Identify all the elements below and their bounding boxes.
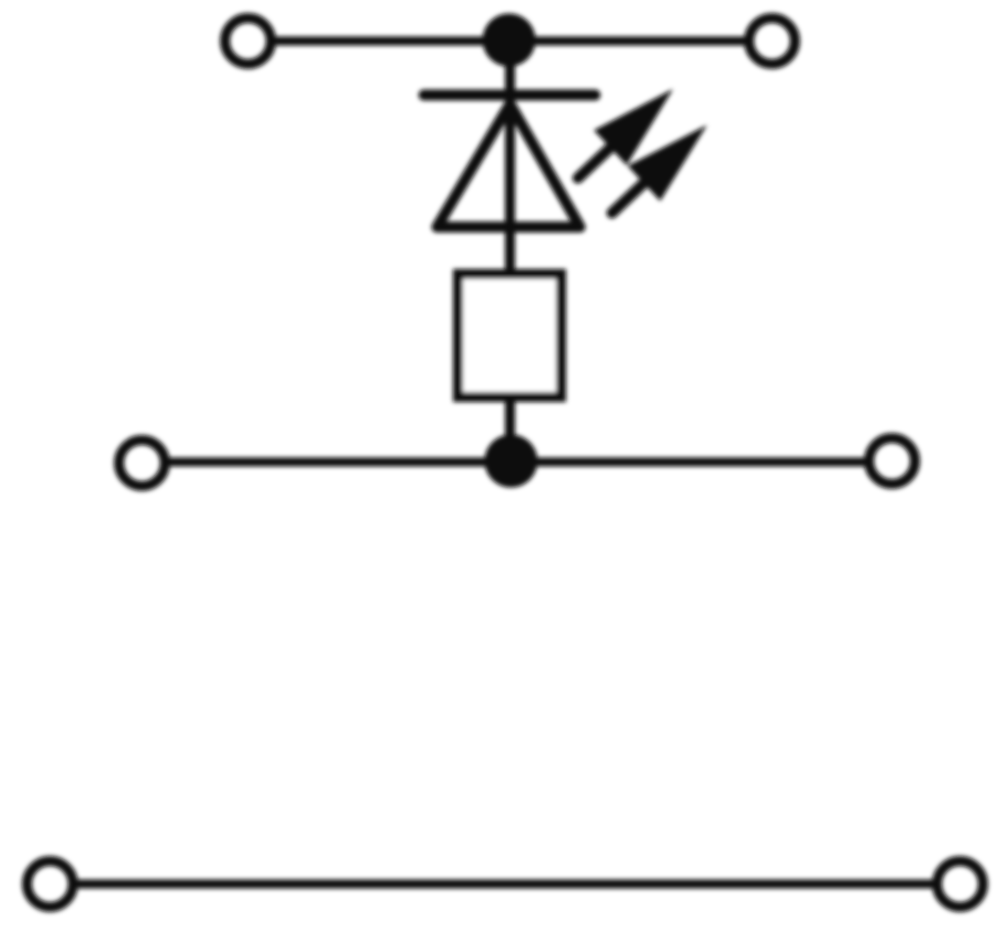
terminal bottom-left bbox=[27, 861, 73, 907]
wire top rail bbox=[276, 37, 744, 46]
wire bottom rail bbox=[76, 880, 934, 889]
resistor R1 body bbox=[458, 274, 561, 397]
terminal top-left bbox=[225, 18, 271, 64]
LED D1 triangle bbox=[437, 104, 580, 227]
terminal bottom-right bbox=[937, 861, 983, 907]
LED D1 cathode bar bbox=[424, 90, 595, 101]
LED D1 light arrow 1 bbox=[578, 89, 673, 178]
terminal middle-left bbox=[119, 440, 165, 486]
LED D1 light arrow 2 bbox=[612, 125, 707, 213]
terminal top-right bbox=[749, 18, 795, 64]
node junction top bbox=[483, 14, 536, 67]
wire vertical from resistor to middle node bbox=[505, 399, 515, 462]
terminal middle-right bbox=[869, 438, 915, 484]
node junction middle bbox=[485, 435, 538, 488]
wire middle rail bbox=[168, 458, 866, 467]
wire vertical from top node to LED bbox=[505, 40, 515, 272]
